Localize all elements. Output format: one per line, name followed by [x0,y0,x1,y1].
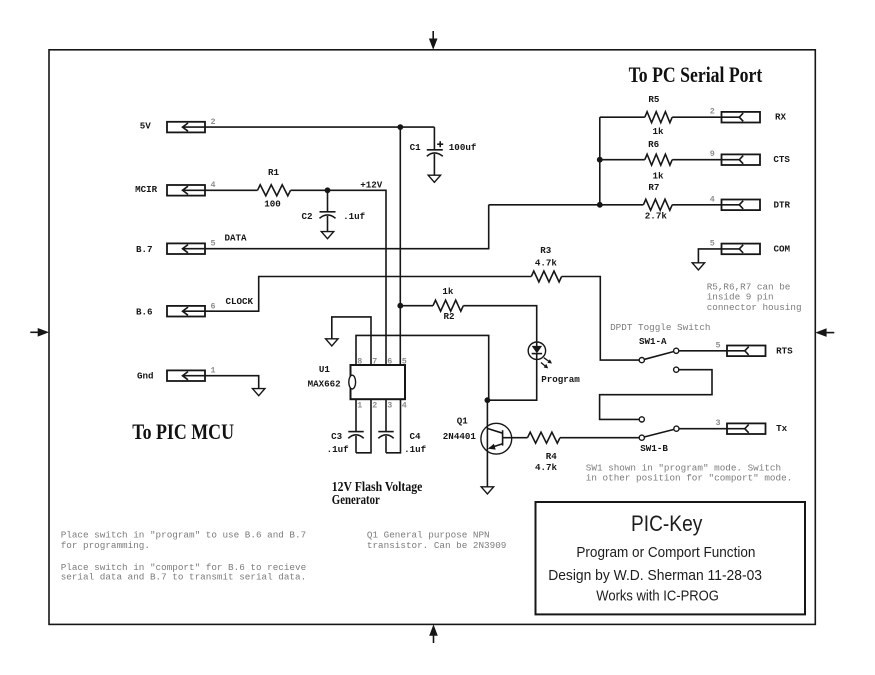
svg-text:1k: 1k [653,126,665,137]
svg-text:DTR: DTR [774,199,791,210]
svg-text:R5: R5 [648,94,660,105]
svg-text:1: 1 [211,365,216,375]
wire SW1-B throw to Tx [679,428,727,430]
capacitor C2 [320,190,336,231]
resistor R3 [531,271,561,282]
svg-text:in other position for "comport: in other position for "comport" mode. [586,473,792,484]
wire U1 pin 8 to collector node [356,335,489,400]
svg-text:To PIC MCU: To PIC MCU [132,419,234,444]
svg-text:2: 2 [710,107,715,117]
svg-text:Gnd: Gnd [137,371,154,382]
svg-text:7: 7 [372,356,377,366]
wire SW1-A throw to RTS [679,350,727,352]
ground (COM) [692,263,704,270]
svg-text:R3: R3 [540,245,552,256]
svg-text:4: 4 [402,401,407,411]
svg-text:C2: C2 [302,211,313,222]
transistor Q1 2N4401 [481,400,528,487]
svg-text:PIC-Key: PIC-Key [631,511,702,536]
connector B.7 (pin 5) [167,243,205,254]
svg-text:4.7k: 4.7k [535,258,558,269]
svg-text:serial data and B.7 to transmi: serial data and B.7 to transmit serial d… [61,572,306,583]
capacitor C4 [378,432,393,453]
svg-text:R2: R2 [444,311,455,322]
svg-text:C3: C3 [331,431,343,442]
svg-text:+12V: +12V [360,179,383,190]
connector Tx (pin 3) [727,423,766,434]
border frame [49,50,815,625]
wire CLOCK from B.6 up and right to R3 [205,277,531,312]
wire DTR row [489,204,644,206]
svg-text:B.7: B.7 [136,244,153,255]
svg-text:for programming.: for programming. [61,540,150,551]
svg-text:C4: C4 [410,431,422,442]
LED Program [528,342,552,368]
svg-text:9: 9 [710,149,715,159]
svg-text:C1: C1 [410,142,422,153]
svg-text:5: 5 [710,238,715,248]
node junction bus/DTR [597,202,603,208]
wire Gnd to ground [205,376,259,389]
capacitor C3 [348,432,363,453]
svg-text:RTS: RTS [776,345,793,356]
svg-text:2.7k: 2.7k [645,210,668,221]
svg-text:Generator: Generator [332,492,380,507]
svg-text:2: 2 [372,401,377,411]
svg-text:5V: 5V [140,121,152,132]
resistor R7 [643,199,672,210]
wire R3 to SW1-A common [562,277,639,361]
ground (Gnd connector) [253,389,265,396]
svg-text:R4: R4 [546,451,558,462]
wire R2 to LED anode [463,306,536,342]
svg-text:3: 3 [387,401,392,411]
wire U1 pin 7 to ground [332,317,371,365]
svg-text:100uf: 100uf [449,142,477,153]
switch SW1-B [639,417,679,441]
svg-text:B.6: B.6 [136,307,153,318]
node junction R2 tap on 5V rail [397,303,403,309]
connector B.6 (pin 6) [167,306,205,317]
wire R6 to CTS connector [672,159,721,161]
wire SW1-A lower throw to SW1-B upper throw [600,370,712,420]
svg-text:5: 5 [716,340,721,350]
svg-text:4.7k: 4.7k [535,462,558,473]
svg-text:DATA: DATA [225,233,248,244]
wire 5V vertical to U1 pin 5 [399,127,401,365]
svg-text:SW1-A: SW1-A [639,336,667,347]
connector CTS (pin 9) [722,154,761,165]
wire 5V rail to C1 corner [205,126,434,128]
connector Gnd (pin 1) [167,370,205,381]
svg-text:Q1: Q1 [457,416,469,427]
note SW1 shown in program mode [586,462,792,483]
connector MCIR (pin 4) [167,185,205,196]
wire CTS row [600,159,645,161]
wire C4 to U1 pin 4 [386,399,401,453]
svg-text:Program: Program [541,374,580,385]
svg-text:6: 6 [387,356,392,366]
ground (C2) [321,232,333,239]
svg-text:Place switch in "program" to u: Place switch in "program" to use B.6 and… [61,530,306,541]
svg-text:Works with IC-PROG: Works with IC-PROG [596,588,719,605]
svg-text:.1uf: .1uf [404,444,427,455]
connector DTR (pin 4) [722,200,761,211]
wire R5 to RX connector [672,116,721,118]
note R5,R6,R7 can be inside 9 pin connector housing [707,281,802,313]
connector COM (pin 5) [722,244,761,255]
svg-text:8: 8 [357,356,362,366]
connector RX (pin 2) [722,112,761,123]
node junction bus/CTS [597,157,603,163]
resistor R6 [645,154,672,165]
svg-text:2N4401: 2N4401 [443,431,477,442]
resistor R4 [528,432,561,443]
wire R7 to DTR connector [672,204,721,206]
svg-text:2: 2 [211,117,216,127]
title block box [536,502,806,614]
svg-text:Design by W.D. Sherman 11-28-: Design by W.D. Sherman 11-28-03 [548,567,762,584]
resistor R5 [645,112,672,123]
svg-text:4: 4 [710,194,715,204]
svg-text:Program or Comport Function: Program or Comport Function [576,544,755,561]
node junction R1/C2 [325,187,331,193]
resistor R1 [258,185,291,196]
note place switch program [61,530,306,583]
ground (U1 pin 7) [326,339,338,346]
node junction collector/LED/pin8 [485,397,491,403]
svg-text:5: 5 [402,356,407,366]
switch SW1-A [639,348,679,372]
svg-text:COM: COM [774,244,791,255]
svg-text:6: 6 [211,302,216,312]
svg-text:100: 100 [264,199,281,210]
svg-text:Q1 General purpose NPN: Q1 General purpose NPN [367,530,490,541]
bottom border tick arrow [429,624,438,643]
svg-text:.1uf: .1uf [343,211,366,222]
svg-text:MAX662: MAX662 [308,379,341,390]
svg-text:1k: 1k [442,286,454,297]
capacitor C1 [427,127,443,175]
right border tick arrow [815,328,834,337]
svg-text:R1: R1 [268,167,280,178]
connector 5V (pin 2) [167,122,205,133]
wire LED cathode down and to collector node [487,359,536,400]
svg-text:3: 3 [716,418,721,428]
wire bus vertical R5/R6/R7 [600,116,645,118]
ground (C1) [428,175,440,182]
wire +12V rail [291,190,387,365]
node junction 5V/pin5 [397,124,403,130]
svg-text:R7: R7 [648,182,659,193]
wire 5V rail to R2 [400,305,433,307]
svg-text:U1: U1 [319,364,331,375]
svg-text:RX: RX [775,111,787,122]
svg-text:5: 5 [211,239,216,249]
svg-text:R6: R6 [648,139,659,150]
svg-text:DPDT Toggle Switch: DPDT Toggle Switch [610,322,710,333]
wire DATA from B.7 to DTR riser [205,205,489,249]
svg-text:CLOCK: CLOCK [226,296,254,307]
wire U1 pin 1 / C3 leg [355,399,357,431]
svg-text:.1uf: .1uf [327,444,350,455]
wire U1 pin 3 / C4 leg [385,399,387,431]
svg-text:SW1-B: SW1-B [640,443,668,454]
IC U1 MAX662 body [349,365,405,399]
top border tick arrow [429,31,438,50]
svg-text:connector housing: connector housing [707,302,802,313]
note Q1 general purpose NPN [367,530,506,552]
connector RTS (pin 5) [727,346,766,357]
wire C3 to U1 pin 2 [356,399,371,453]
resistor R2 [433,300,463,311]
svg-text:4: 4 [211,180,216,190]
svg-text:1: 1 [357,401,362,411]
svg-text:CTS: CTS [773,154,790,165]
heading 12V Flash Voltage Generator [332,479,423,507]
wire COM to ground [698,249,721,263]
svg-text:transistor. Can be 2N3909: transistor. Can be 2N3909 [367,540,506,551]
svg-text:To PC Serial Port: To PC Serial Port [629,62,763,87]
svg-text:MCIR: MCIR [135,184,158,195]
wire MCIR to R1 [205,189,258,191]
svg-text:1k: 1k [653,170,665,181]
svg-text:Tx: Tx [776,423,788,434]
wire R4 to SW1-B common [560,437,639,439]
left border tick arrow [30,328,49,337]
ground (Q1 emitter) [481,487,493,494]
